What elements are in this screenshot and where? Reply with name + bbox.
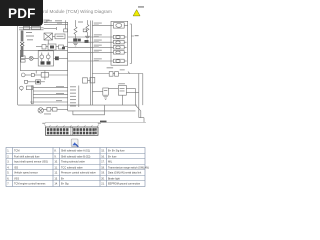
- wire: [33, 90, 67, 92]
- pin label: [94, 51, 99, 54]
- page marker text: [138, 6, 144, 8]
- gate box U1: [44, 33, 53, 40]
- fuse box F1: [109, 72, 113, 77]
- pin label: [70, 105, 76, 108]
- wire: [92, 91, 102, 93]
- wire: [20, 90, 22, 91]
- wire: [124, 41, 126, 43]
- label box: [32, 26, 41, 29]
- wire: [135, 89, 137, 105]
- pull-up wire: [86, 20, 88, 24]
- wire: [54, 57, 56, 59]
- label box: [55, 34, 65, 39]
- wire: [46, 46, 48, 48]
- svg-text:VSS: VSS: [14, 177, 19, 180]
- wire: [25, 74, 31, 76]
- component box: [21, 56, 25, 59]
- pin label: [70, 92, 76, 95]
- solenoid S6: [113, 59, 124, 63]
- svg-text:Shift solenoid valve A (S1): Shift solenoid valve A (S1): [61, 150, 90, 153]
- wire: [41, 81, 45, 83]
- dark glyph: [78, 39, 81, 42]
- label: [26, 36, 34, 37]
- svg-text:B+ B+ Sig fuse: B+ B+ Sig fuse: [108, 150, 125, 153]
- wire: [49, 74, 68, 76]
- pull-down wire: [64, 20, 66, 29]
- label: [44, 22, 48, 23]
- pin label: [70, 101, 76, 104]
- pin label: [94, 40, 99, 43]
- wire: [68, 46, 114, 48]
- wire: [19, 27, 44, 29]
- connector bus C1: [91, 21, 93, 106]
- label: [107, 67, 114, 68]
- svg-text:18.: 18.: [101, 166, 105, 169]
- wire: [124, 46, 126, 48]
- dark glyph: [73, 38, 77, 41]
- svg-text:TCM: TCM: [14, 150, 19, 153]
- svg-text:EEPROM ground connection: EEPROM ground connection: [108, 183, 141, 186]
- wire: [44, 23, 68, 25]
- wire: [118, 73, 142, 75]
- wire: [33, 87, 67, 89]
- connector latches: [49, 125, 93, 127]
- wire: [47, 40, 49, 44]
- connector bar: [31, 86, 33, 104]
- solenoid S2 coil: [116, 36, 120, 39]
- component box: [103, 88, 109, 95]
- wire: [51, 108, 52, 110]
- harness connector shell: [46, 127, 99, 135]
- wire: [35, 71, 37, 74]
- wire: [53, 36, 56, 38]
- ground: [73, 43, 78, 46]
- connector bus C1: [90, 21, 92, 106]
- svg-text:7.: 7.: [7, 183, 9, 186]
- wire: [108, 88, 118, 90]
- wire: [36, 46, 42, 48]
- component box: [26, 86, 32, 90]
- solenoid S4 coil: [116, 46, 120, 49]
- svg-text:1.: 1.: [7, 150, 9, 153]
- label: [44, 113, 51, 116]
- bracket label: [135, 35, 139, 36]
- svg-text:17.: 17.: [101, 161, 105, 164]
- wire: [57, 108, 68, 110]
- sensor circle: [20, 86, 24, 90]
- svg-text:5.: 5.: [7, 172, 9, 175]
- solenoid S1 coil: [116, 24, 122, 28]
- wire: [56, 46, 59, 48]
- wire: [124, 36, 126, 38]
- wire: [59, 57, 68, 59]
- wire: [124, 51, 126, 53]
- component box: [83, 78, 88, 83]
- svg-text:13.: 13.: [54, 177, 58, 180]
- label: [56, 92, 64, 95]
- wire: [44, 71, 46, 80]
- wire: [25, 57, 29, 59]
- component box: [59, 45, 64, 49]
- label: [46, 20, 52, 21]
- component box: [31, 74, 34, 77]
- label: [78, 22, 83, 23]
- label: [26, 32, 32, 33]
- ground: [103, 97, 108, 100]
- label: [55, 20, 62, 21]
- pin 16 arrow: [97, 123, 101, 127]
- gate X: [44, 33, 53, 40]
- bracket C2: [130, 24, 134, 64]
- dark glyph: [85, 40, 89, 43]
- svg-text:21.: 21.: [101, 183, 105, 186]
- svg-text:12.: 12.: [54, 172, 58, 175]
- pin label: [94, 44, 102, 47]
- label: [120, 68, 125, 71]
- svg-text:B+: B+: [61, 177, 65, 180]
- wire: [138, 74, 140, 118]
- svg-text:11.: 11.: [54, 166, 58, 169]
- component box: [52, 108, 57, 111]
- transistor Q1: [40, 55, 44, 59]
- pin 1 arrow: [42, 123, 46, 127]
- svg-text:MIL: MIL: [108, 161, 113, 164]
- resistor R2: [86, 24, 89, 32]
- solenoid S6 coil: [116, 60, 120, 63]
- svg-text:Transmission range switch (GML: Transmission range switch (GMLAN): [108, 166, 149, 169]
- wire: [143, 118, 145, 123]
- TCM box right edge wire: [67, 22, 69, 111]
- table text: [7, 150, 149, 186]
- switch SW1: [136, 105, 141, 111]
- dark glyph: [50, 46, 54, 49]
- splice X: [20, 42, 24, 46]
- resistor R1: [74, 27, 77, 35]
- placeholder icon: [71, 139, 78, 147]
- dark glyph: [41, 61, 45, 64]
- pin label: [94, 24, 99, 27]
- pin label: [70, 89, 76, 92]
- pin label: [94, 39, 102, 42]
- wire: [121, 95, 123, 105]
- solenoid S3 coil: [116, 41, 120, 44]
- wire: [44, 22, 68, 24]
- wire: [139, 117, 144, 119]
- label: [57, 36, 64, 37]
- wire: [68, 51, 114, 53]
- label: [56, 85, 64, 88]
- dark glyph: [55, 56, 59, 60]
- svg-text:Fuel shift solenoid fuse: Fuel shift solenoid fuse: [14, 155, 40, 158]
- pin label: [94, 59, 99, 62]
- dark glyph: [100, 121, 107, 123]
- wire: [113, 73, 115, 75]
- svg-text:Shift solenoid valve B (S2): Shift solenoid valve B (S2): [61, 155, 90, 158]
- component box: [47, 107, 51, 111]
- wire: [28, 81, 36, 83]
- dark glyph: [37, 81, 40, 83]
- component box: [83, 29, 87, 32]
- label: [118, 82, 125, 85]
- solenoid S5 coil: [116, 51, 120, 54]
- harness bar: [21, 46, 24, 57]
- component box: [25, 80, 28, 83]
- harness bar: [21, 31, 24, 42]
- solenoid S4: [113, 46, 124, 50]
- svg-text:B+ fuse: B+ fuse: [108, 155, 117, 158]
- label: [120, 90, 125, 93]
- wire tick: [128, 72, 130, 74]
- wire tick: [55, 27, 57, 30]
- label: [120, 87, 125, 90]
- wire: [19, 29, 44, 31]
- wire: [33, 93, 67, 95]
- pin tick rail: [78, 86, 80, 108]
- wire: [30, 101, 68, 103]
- sensor cross: [30, 57, 33, 60]
- wire: [88, 80, 91, 82]
- component box: [90, 77, 95, 83]
- pin label: [70, 85, 76, 88]
- svg-text:Data (GMLAN) serial data link: Data (GMLAN) serial data link: [108, 172, 142, 175]
- pin label: [94, 49, 102, 52]
- svg-text:10.: 10.: [54, 161, 58, 164]
- sensor circle: [29, 56, 33, 60]
- wire: [140, 111, 142, 118]
- sensor cross: [39, 109, 43, 113]
- label: [44, 20, 50, 21]
- svg-text:Input shaft speed sensor (ISS): Input shaft speed sensor (ISS): [14, 161, 48, 164]
- wire: [68, 60, 114, 62]
- wire: [34, 74, 41, 76]
- component box: [41, 73, 48, 78]
- transistor Q2: [46, 55, 50, 59]
- wire: [142, 74, 144, 106]
- solenoid S2: [113, 35, 124, 39]
- connector pins: [47, 128, 97, 134]
- label: [56, 99, 62, 102]
- wire: [68, 110, 136, 112]
- sensor circle: [21, 73, 25, 77]
- pin label: [94, 46, 99, 49]
- solenoid assembly box: [111, 21, 128, 65]
- wire: [92, 73, 109, 75]
- left rail wire: [16, 26, 18, 105]
- svg-text:B+ Sig: B+ Sig: [61, 183, 69, 186]
- component box: [21, 60, 25, 63]
- wire: [33, 97, 67, 99]
- svg-text:4.: 4.: [7, 166, 9, 169]
- warning icon: [133, 10, 140, 16]
- component box: [36, 80, 41, 84]
- wire: [18, 104, 137, 106]
- wire: [124, 60, 126, 62]
- figure base line: [45, 122, 146, 124]
- wire: [92, 24, 113, 26]
- svg-text:ISS: ISS: [14, 166, 18, 169]
- dark glyph: [47, 61, 51, 64]
- wire: [124, 24, 128, 26]
- sensor circle B1: [38, 108, 43, 113]
- svg-text:6.: 6.: [7, 177, 9, 180]
- svg-text:15.: 15.: [101, 150, 105, 153]
- wire: [64, 46, 68, 48]
- label box: [24, 26, 30, 29]
- pin label: [94, 35, 99, 38]
- label: [27, 39, 33, 40]
- svg-text:16.: 16.: [101, 155, 105, 158]
- wire: [126, 88, 135, 90]
- component box: [48, 44, 56, 50]
- relay box K1: [118, 85, 126, 95]
- label: [104, 89, 108, 92]
- svg-text:14.: 14.: [54, 183, 58, 186]
- svg-text:Brake light: Brake light: [108, 177, 120, 180]
- component box: [64, 29, 68, 32]
- component box: [42, 45, 46, 50]
- svg-text:19.: 19.: [101, 172, 105, 175]
- solenoid S3: [113, 40, 124, 44]
- wire: [43, 108, 47, 110]
- wire: [33, 57, 38, 59]
- wire: [68, 41, 114, 43]
- wire: [68, 36, 114, 38]
- pin label: [70, 95, 76, 98]
- svg-text:8.: 8.: [54, 150, 56, 153]
- dark glyph: [62, 47, 65, 50]
- svg-text:20.: 20.: [101, 177, 105, 180]
- svg-text:TCC solenoid valve: TCC solenoid valve: [61, 166, 83, 169]
- pin label: [70, 98, 76, 101]
- svg-text:Vehicle speed sensor: Vehicle speed sensor: [14, 172, 38, 175]
- pull-up wire: [75, 20, 77, 27]
- TCM box: [20, 50, 67, 70]
- svg-text:9.: 9.: [54, 155, 56, 158]
- svg-text:3.: 3.: [7, 161, 9, 164]
- transistor marks: [42, 53, 48, 62]
- pin label: [94, 33, 102, 36]
- svg-text:2.: 2.: [7, 155, 9, 158]
- fuse box F2: [115, 72, 119, 77]
- label: [57, 23, 62, 24]
- solenoid S1: [113, 23, 124, 28]
- pin label: [94, 57, 102, 60]
- svg-text:Timing solenoid valve: Timing solenoid valve: [61, 161, 86, 164]
- solenoid S5: [113, 51, 124, 55]
- wire: [44, 28, 57, 30]
- ground: [85, 36, 90, 39]
- wire: [75, 35, 77, 39]
- driver box: [38, 51, 53, 66]
- pin label: [94, 22, 102, 25]
- svg-text:TCM engine control harness: TCM engine control harness: [14, 183, 46, 186]
- svg-text:Pressure control solenoid valv: Pressure control solenoid valve: [61, 172, 96, 175]
- wire: [73, 105, 105, 115]
- wire: [86, 32, 88, 36]
- PDF badge: [0, 0, 43, 26]
- legend table: [6, 148, 145, 187]
- connector divider: [71, 127, 73, 135]
- wire: [126, 92, 139, 94]
